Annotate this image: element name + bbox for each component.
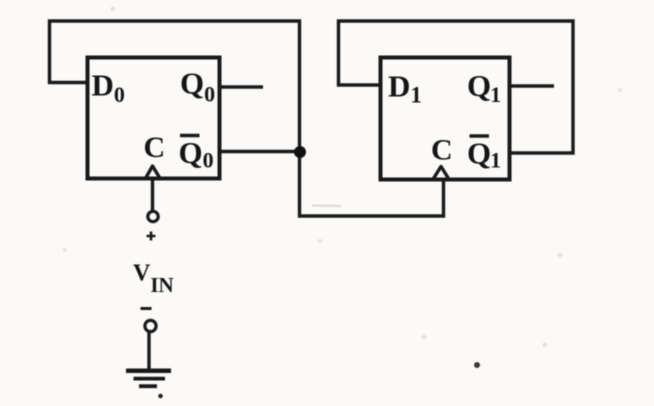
wire Q0-bar output to junction — [220, 150, 300, 153]
svg-text:Q0: Q0 — [179, 135, 214, 173]
plus sign — [147, 232, 156, 241]
clock edge marker U0 — [146, 166, 160, 178]
junction node dot — [294, 146, 306, 158]
clock edge marker U1 — [434, 167, 449, 179]
faint scan artifact line — [312, 205, 341, 208]
wire Q0 output stub — [220, 85, 264, 88]
scan speck near ground — [158, 394, 163, 399]
svg-text:D0: D0 — [92, 68, 125, 108]
wire terminal to ground — [147, 333, 150, 369]
terminal circle top of VIN — [148, 211, 158, 221]
scan speck right of ground — [474, 362, 480, 368]
svg-text:C: C — [431, 134, 453, 167]
terminal circle bottom of VIN — [145, 320, 156, 331]
wire Q1 output stub — [510, 84, 555, 87]
svg-text:Q1: Q1 — [467, 136, 501, 173]
ground — [126, 371, 171, 387]
flip-flop U1 box — [381, 58, 510, 180]
overbar of Q1-bar — [470, 134, 490, 138]
svg-text:D1: D1 — [388, 69, 422, 108]
svg-text:VIN: VIN — [133, 261, 174, 298]
wire feedback loop U1: D1 input, top run, right side down to Q1-bar — [339, 21, 574, 153]
svg-text:C: C — [144, 131, 166, 164]
wire clock of U0 down to input terminal — [151, 180, 154, 212]
svg-text:Q0: Q0 — [180, 66, 215, 107]
overbar of Q0-bar — [180, 134, 200, 138]
svg-text:Q1: Q1 — [467, 68, 501, 107]
minus sign — [141, 307, 152, 310]
flip-flop U0 box — [88, 58, 220, 179]
wire feedback loop U0: D0 input, top run, down past junction to clock of U1 — [50, 21, 444, 216]
